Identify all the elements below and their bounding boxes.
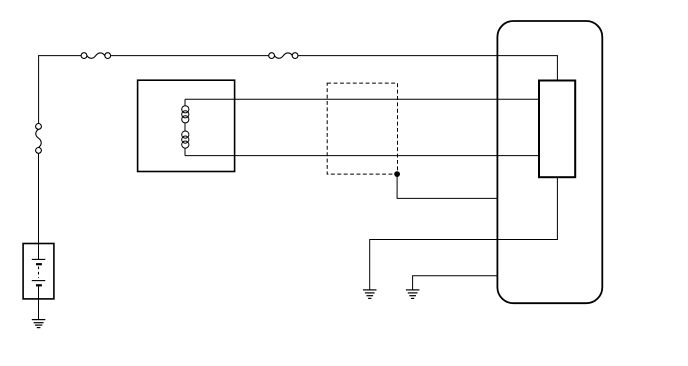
ground: ground 2 [406, 290, 420, 299]
wire: battery negative to ground [38, 299, 40, 320]
ground: ground 1 [363, 290, 377, 299]
dashed box (shielded / optional unit) [327, 83, 397, 174]
wire: top horizontal feed from battery branch to ECU [39, 56, 558, 80]
wire: connector bottom to ground 1 [370, 177, 558, 290]
fuse F2 (fusible link, right) [269, 53, 298, 59]
junction node (solder dot) [394, 171, 400, 177]
relay K1 (box) [138, 80, 235, 171]
wire: left vertical drop to battery [38, 55, 40, 243]
battery BT1 (outline box) [23, 244, 54, 299]
wire: ECU body to ground 2 [413, 276, 498, 290]
wire: coil top lead to ECU connector [185, 98, 539, 100]
ECU connector (inner box) [539, 81, 575, 178]
ECU body (rounded box) [497, 21, 602, 303]
wire: junction drop to ECU body [397, 174, 497, 198]
fuse F3 (vertical, battery branch) [36, 124, 42, 154]
wire: coil bottom lead to ECU connector [185, 155, 539, 157]
battery BT1 internal cells [32, 244, 46, 299]
relay coil L1 [182, 99, 189, 155]
ground: battery ground [32, 320, 46, 328]
fuse F1 (fusible link, left) [81, 53, 111, 59]
